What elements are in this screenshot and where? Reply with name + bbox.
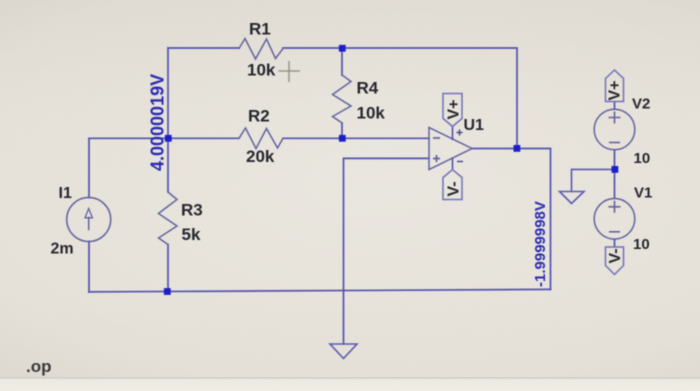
ground symbol right with stub wire bbox=[560, 169, 615, 203]
svg-text:-1.9999998V: -1.9999998V bbox=[532, 201, 549, 287]
voltage source V2 plus marker bbox=[609, 112, 621, 124]
voltage source V1 plus marker bbox=[609, 201, 621, 213]
wire top horizontal feedback run to op-amp output bbox=[168, 48, 517, 149]
wire V2 top to V+ flag bbox=[614, 102, 616, 110]
svg-text:20k: 20k bbox=[246, 147, 275, 166]
current source I1 circle bbox=[67, 198, 111, 242]
svg-text:V2: V2 bbox=[632, 95, 650, 112]
op-amp U1 supply pin label + bbox=[457, 130, 463, 136]
junction R2 R4 inverting input node bbox=[339, 135, 346, 142]
svg-text:V+: V+ bbox=[607, 80, 624, 100]
voltage source V1 minus marker bbox=[609, 231, 620, 233]
wire V1 bottom to V- flag bbox=[614, 239, 616, 247]
svg-text:I1: I1 bbox=[59, 185, 72, 202]
voltage source V1 circle bbox=[594, 199, 635, 240]
svg-text:10: 10 bbox=[633, 236, 650, 253]
junction left rail node 4.0000019V bbox=[165, 135, 172, 142]
svg-text:R1: R1 bbox=[249, 20, 271, 39]
net flag V+ above V2 bbox=[606, 70, 624, 102]
wire middle horizontal to op-amp inverting input bbox=[89, 137, 429, 139]
wire bottom bus bbox=[89, 289, 551, 292]
wire left vertical rail (node 4.0000019V) bbox=[167, 48, 169, 292]
resistor R3 bbox=[159, 192, 178, 245]
op-amp U1 positive supply pin bbox=[452, 127, 454, 141]
svg-text:V1: V1 bbox=[634, 184, 652, 201]
resistor R1 bbox=[239, 39, 283, 60]
net flag V- below V1 bbox=[606, 247, 624, 275]
svg-text:V-: V- bbox=[607, 248, 624, 263]
svg-text:5k: 5k bbox=[182, 225, 201, 244]
ground symbol main bbox=[330, 344, 357, 359]
svg-text:R4: R4 bbox=[357, 79, 379, 98]
svg-text:V-: V- bbox=[446, 181, 463, 196]
voltage source V2 minus marker bbox=[609, 142, 620, 144]
op-amp U1 supply pin label - bbox=[457, 161, 463, 163]
wire current source I1 branch bbox=[88, 138, 90, 292]
svg-text:4.0000019V: 4.0000019V bbox=[148, 74, 168, 171]
svg-text:U1: U1 bbox=[464, 117, 485, 134]
svg-text:10: 10 bbox=[634, 150, 651, 167]
svg-text:.op: .op bbox=[26, 357, 52, 376]
op-amp U1 triangle bbox=[429, 127, 472, 170]
current source I1 arrow shaft bbox=[88, 218, 90, 230]
voltage source V2 circle bbox=[594, 109, 635, 150]
resistor R2 bbox=[239, 128, 283, 149]
svg-text:2m: 2m bbox=[51, 241, 74, 258]
junction V1 V2 mid node bbox=[612, 166, 619, 173]
svg-text:R3: R3 bbox=[181, 201, 203, 220]
svg-text:10k: 10k bbox=[357, 104, 386, 123]
wire op-amp non-inverting input down to ground bbox=[344, 158, 430, 344]
wire V2 bottom to mid node bbox=[614, 150, 616, 199]
junction op-amp output node bbox=[514, 145, 521, 152]
svg-text:10k: 10k bbox=[247, 61, 276, 80]
resistor R4 bbox=[333, 75, 352, 123]
svg-text:R2: R2 bbox=[248, 107, 270, 126]
net flag V- below op-amp bbox=[443, 170, 462, 200]
mouse cursor crosshair bbox=[279, 61, 301, 82]
op-amp U1 non-inverting input marker bbox=[433, 155, 440, 162]
junction R1 R4 top node bbox=[339, 45, 346, 52]
op-amp U1 negative supply pin bbox=[452, 158, 454, 170]
junction bottom bus node bbox=[164, 288, 171, 295]
wire op-amp output (node -1.9999998V) bbox=[472, 149, 551, 290]
op-amp U1 inverting input marker bbox=[433, 137, 440, 139]
current source I1 arrow head bbox=[85, 209, 92, 218]
wire R4 leads bbox=[341, 48, 343, 138]
svg-text:V+: V+ bbox=[446, 99, 463, 119]
net flag V+ above op-amp bbox=[443, 94, 462, 127]
